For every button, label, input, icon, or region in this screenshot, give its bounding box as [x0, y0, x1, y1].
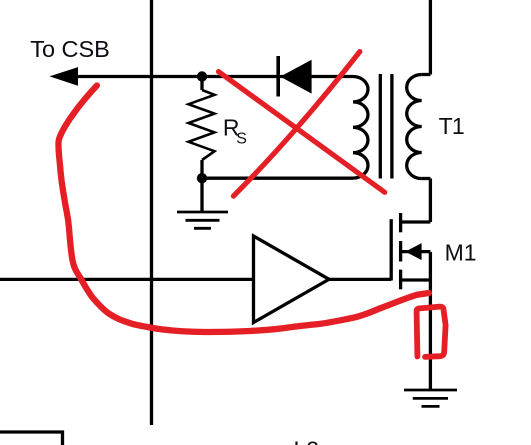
svg-text:L2: L2: [294, 437, 320, 445]
svg-text:S: S: [236, 130, 247, 147]
svg-text:M1: M1: [445, 240, 477, 266]
svg-text:To CSB: To CSB: [30, 36, 110, 62]
svg-text:T1: T1: [439, 113, 464, 139]
